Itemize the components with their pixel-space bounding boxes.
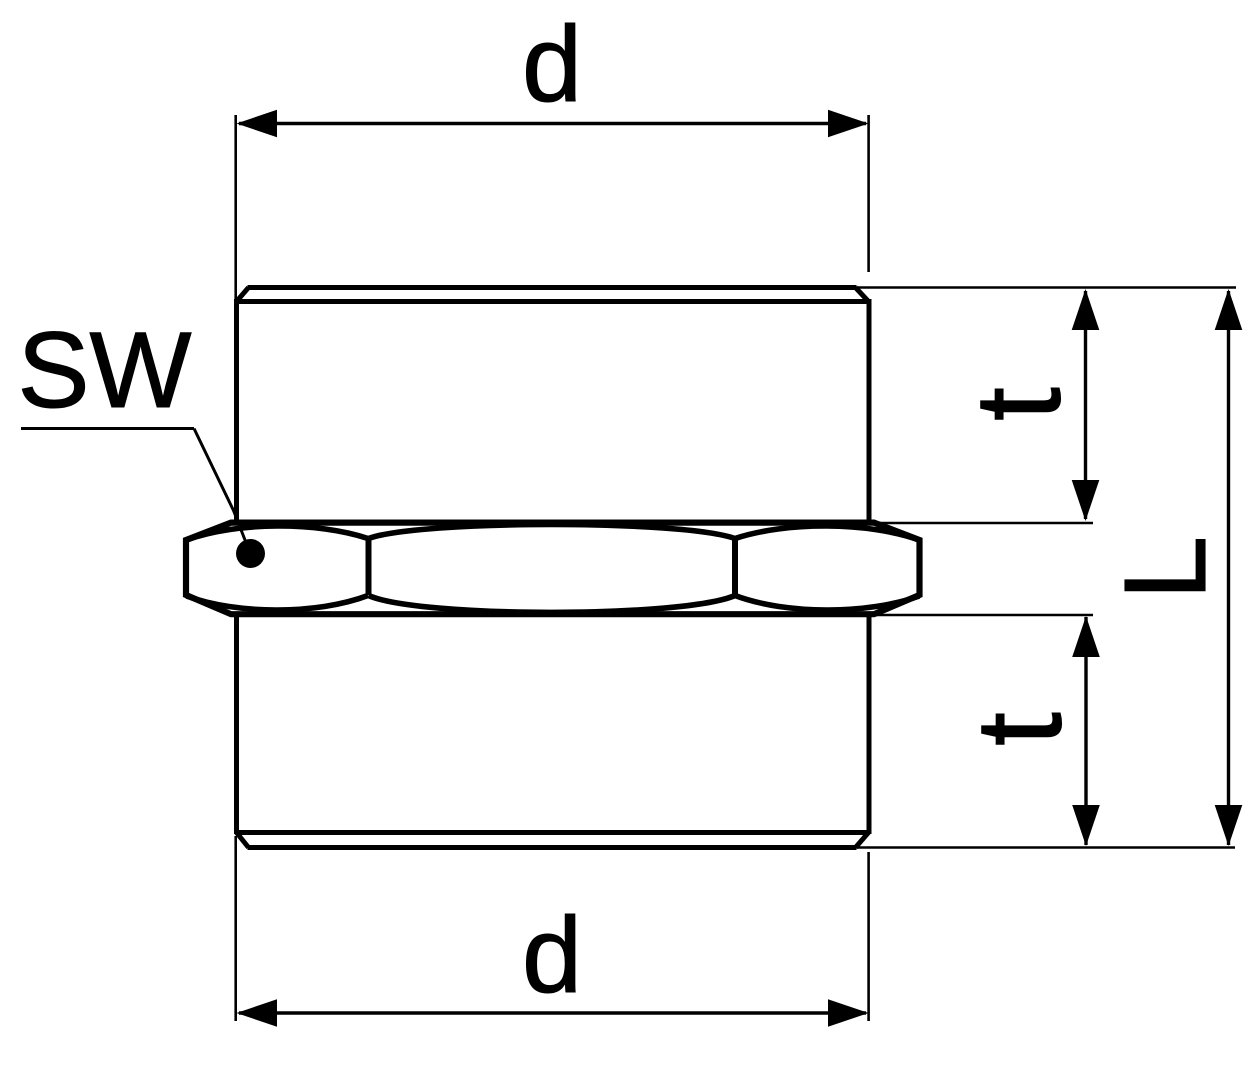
dimension line t (bottom) — [1084, 617, 1087, 845]
leader line SW diagonal — [194, 429, 249, 550]
svg-text:d: d — [522, 3, 582, 124]
body bottom chamfer left diagonal — [237, 833, 249, 848]
arrowhead L down — [1215, 805, 1243, 846]
arrowhead t-bottom down — [1072, 805, 1100, 846]
svg-text:L: L — [1100, 536, 1230, 601]
svg-text:d: d — [522, 894, 582, 1015]
hex chamfer arc left face bottom — [187, 596, 369, 611]
extension line right of top d — [867, 115, 870, 272]
arrowhead bottom-d left — [237, 999, 278, 1027]
extension line left of bottom d — [234, 836, 237, 1021]
body top chamfer left diagonal — [237, 288, 249, 302]
arrowhead t-top up — [1072, 289, 1100, 330]
hex chamfer arc right face top — [735, 526, 919, 540]
svg-text:t: t — [950, 387, 1086, 421]
arrowhead top-d left — [237, 110, 278, 138]
extension line right of bottom d — [867, 852, 870, 1021]
svg-text:t: t — [951, 712, 1087, 746]
extension line hex top level — [874, 522, 1093, 525]
body left edge upper — [234, 299, 239, 523]
leader line SW horizontal — [21, 427, 194, 430]
arrowhead bottom-d right — [828, 999, 869, 1027]
body right edge upper — [867, 299, 872, 523]
arrowhead t-top down — [1072, 480, 1100, 521]
hex corner edge right — [732, 538, 738, 595]
extension line left of top d — [234, 115, 237, 300]
body right edge lower — [867, 614, 872, 834]
extension line top-right (top face level) — [858, 286, 1236, 289]
hex chamfer arc middle face bottom — [369, 596, 736, 613]
leader dot on hex face (SW reference) — [236, 539, 265, 568]
arrowhead t-bottom up — [1072, 616, 1100, 657]
body top edge — [237, 299, 869, 304]
dimension line d (top) — [239, 122, 866, 125]
dimension line L — [1227, 291, 1230, 845]
body bottom chamfer right diagonal — [856, 833, 869, 848]
arrowhead top-d right — [828, 110, 869, 138]
body top chamfer edge — [248, 285, 857, 290]
svg-text:SW: SW — [18, 309, 192, 430]
hex corner edge left — [366, 538, 372, 595]
arrowhead L up — [1215, 289, 1243, 330]
dimension line d (bottom) — [239, 1011, 866, 1014]
extension line bottom-right (bottom face level) — [857, 846, 1235, 849]
hex chamfer arc middle face top — [369, 524, 736, 538]
hex collar outline — [186, 523, 920, 615]
hex chamfer arc right face bottom — [735, 596, 919, 611]
extension line hex bottom level — [874, 614, 1093, 617]
body top chamfer right diagonal — [856, 288, 869, 302]
body left edge lower — [234, 614, 239, 834]
body bottom edge — [237, 830, 869, 835]
hex chamfer arc left face top — [187, 526, 369, 540]
body bottom chamfer edge — [248, 845, 857, 850]
dimension line t (top) — [1084, 291, 1087, 519]
